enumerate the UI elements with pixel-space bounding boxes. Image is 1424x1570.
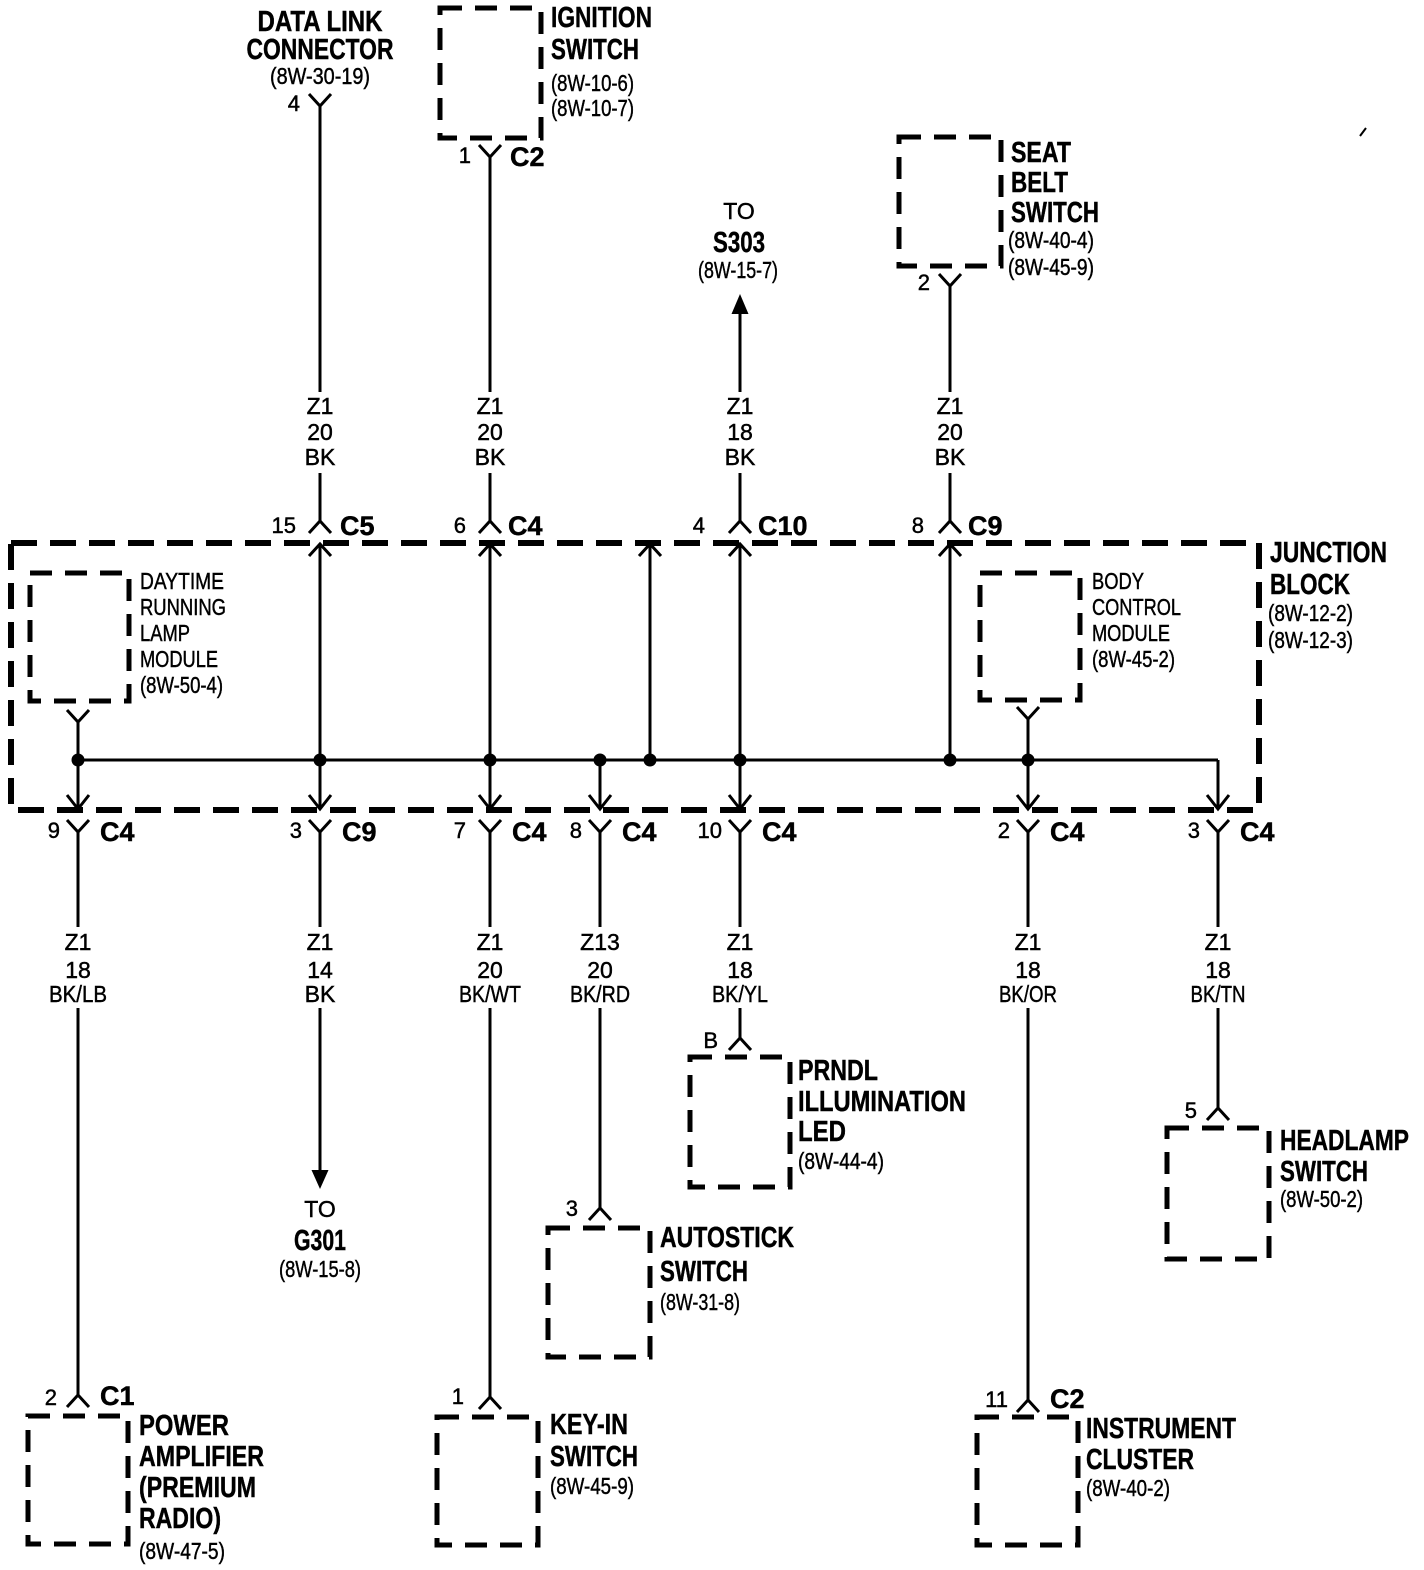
wire stub from bus to top edge bbox=[649, 544, 652, 760]
prndl illumination led label bbox=[798, 1055, 966, 1174]
svg-text:Z1: Z1 bbox=[307, 393, 334, 419]
svg-text:C4: C4 bbox=[1050, 817, 1085, 847]
svg-text:18: 18 bbox=[727, 957, 753, 983]
wire Z1 20 BK from ignition switch (upper) bbox=[489, 157, 492, 392]
svg-text:(8W-15-7): (8W-15-7) bbox=[698, 257, 778, 283]
svg-text:Z1: Z1 bbox=[65, 929, 92, 955]
arrow out of junction block at x=1028 bbox=[1017, 795, 1039, 809]
svg-text:6: 6 bbox=[454, 513, 466, 538]
svg-text:SWITCH: SWITCH bbox=[1280, 1156, 1368, 1188]
svg-text:18: 18 bbox=[1015, 957, 1041, 983]
svg-text:20: 20 bbox=[477, 957, 503, 983]
daytime running lamp module label bbox=[140, 568, 226, 698]
svg-text:CONNECTOR: CONNECTOR bbox=[247, 34, 394, 66]
wire bus to pin 10 C4 bottom bbox=[739, 760, 742, 809]
svg-text:Z1: Z1 bbox=[307, 929, 334, 955]
body control module label bbox=[1092, 568, 1181, 672]
fork below junction block at x=1028 bbox=[1017, 820, 1039, 832]
svg-text:7: 7 bbox=[454, 818, 466, 843]
svg-text:BK: BK bbox=[475, 444, 506, 470]
connector fork pin 2 C1 (power amplifier) bbox=[67, 1395, 89, 1407]
svg-text:5: 5 bbox=[1185, 1098, 1197, 1123]
wire Z1 20 BK from seat belt switch (upper) bbox=[949, 286, 952, 392]
svg-text:AUTOSTICK: AUTOSTICK bbox=[660, 1222, 794, 1254]
svg-text:Z1: Z1 bbox=[937, 393, 964, 419]
svg-text:(8W-50-2): (8W-50-2) bbox=[1280, 1186, 1363, 1212]
svg-text:BODY: BODY bbox=[1092, 568, 1144, 594]
svg-text:ILLUMINATION: ILLUMINATION bbox=[798, 1086, 966, 1118]
svg-text:BK/LB: BK/LB bbox=[49, 981, 107, 1007]
svg-text:(8W-44-4): (8W-44-4) bbox=[798, 1148, 884, 1174]
node S303 label bbox=[698, 198, 778, 283]
headlamp switch box bbox=[1167, 1128, 1269, 1259]
arrow out of junction block at x=78 bbox=[67, 795, 89, 809]
svg-text:2: 2 bbox=[45, 1385, 57, 1410]
key-in switch label bbox=[550, 1409, 638, 1499]
svg-text:3: 3 bbox=[290, 818, 302, 843]
svg-text:C9: C9 bbox=[342, 817, 377, 847]
svg-text:CONTROL: CONTROL bbox=[1092, 594, 1181, 620]
arrowhead to G301 bbox=[312, 1170, 329, 1189]
body control module box bbox=[980, 573, 1080, 700]
connector fork below body control module bbox=[1017, 707, 1039, 719]
svg-text:DAYTIME: DAYTIME bbox=[140, 568, 224, 594]
svg-text:LED: LED bbox=[798, 1116, 846, 1148]
wire label Z1 20 BK bbox=[935, 393, 966, 470]
svg-text:(8W-10-6): (8W-10-6) bbox=[551, 70, 634, 96]
connector fork pin 4 (data link connector) bbox=[309, 94, 331, 106]
svg-text:SEAT: SEAT bbox=[1011, 137, 1071, 169]
svg-text:BK/RD: BK/RD bbox=[570, 981, 630, 1007]
svg-text:C2: C2 bbox=[510, 142, 545, 172]
svg-text:C4: C4 bbox=[622, 817, 657, 847]
fork below junction block at x=320 bbox=[309, 820, 331, 832]
svg-text:BK: BK bbox=[305, 444, 336, 470]
svg-text:BK/WT: BK/WT bbox=[459, 981, 521, 1007]
seat belt switch box bbox=[899, 137, 1001, 266]
wire Z1 20 BK (lower) bbox=[319, 473, 322, 521]
wire bus to pin 7 C4 bottom bbox=[489, 760, 492, 809]
connector fork pin B (prndl led) bbox=[729, 1038, 751, 1050]
junction dot at x=78 bbox=[72, 754, 85, 767]
svg-text:(8W-15-8): (8W-15-8) bbox=[279, 1256, 361, 1282]
ignition switch label bbox=[551, 2, 652, 121]
svg-text:3: 3 bbox=[1188, 818, 1200, 843]
wire C5 to bus bbox=[319, 544, 322, 760]
wire Z1 20 BK from data link connector (upper) bbox=[319, 106, 322, 392]
svg-text:(8W-12-3): (8W-12-3) bbox=[1268, 627, 1353, 653]
fork into junction block C10 bbox=[729, 521, 751, 533]
svg-text:SWITCH: SWITCH bbox=[660, 1256, 748, 1288]
wire Z1 18 BK/TN (lower) bbox=[1217, 1008, 1220, 1108]
svg-text:Z1: Z1 bbox=[727, 929, 754, 955]
prndl illumination led box bbox=[690, 1057, 790, 1187]
wire Z1 18 BK/OR from junction block (upper) bbox=[1027, 832, 1030, 927]
arrow out of junction block at x=1218 bbox=[1207, 795, 1229, 809]
power amplifier label bbox=[139, 1410, 264, 1564]
svg-text:1: 1 bbox=[459, 143, 471, 168]
svg-text:SWITCH: SWITCH bbox=[550, 1441, 638, 1473]
svg-text:BK: BK bbox=[935, 444, 966, 470]
svg-text:20: 20 bbox=[477, 419, 503, 445]
svg-text:(8W-45-9): (8W-45-9) bbox=[1008, 254, 1094, 280]
headlamp switch label bbox=[1280, 1125, 1409, 1212]
svg-text:C4: C4 bbox=[512, 817, 547, 847]
svg-text:Z1: Z1 bbox=[477, 929, 504, 955]
arrow into junction block at C10 bbox=[729, 544, 751, 556]
svg-text:Z1: Z1 bbox=[1015, 929, 1042, 955]
fork below junction block at x=1218 bbox=[1207, 820, 1229, 832]
arrow out of junction block at x=490 bbox=[479, 795, 501, 809]
svg-text:BK/TN: BK/TN bbox=[1191, 981, 1246, 1007]
svg-text:3: 3 bbox=[566, 1196, 578, 1221]
svg-text:8: 8 bbox=[570, 818, 582, 843]
wire label Z1 18 BK/OR bbox=[999, 929, 1057, 1007]
wire C4 top to bus bbox=[489, 544, 492, 760]
svg-text:C4: C4 bbox=[508, 511, 543, 541]
svg-text:(8W-45-9): (8W-45-9) bbox=[550, 1473, 634, 1499]
svg-text:JUNCTION: JUNCTION bbox=[1270, 537, 1387, 569]
wire Z1 18 BK (lower) bbox=[739, 473, 742, 521]
wire Z13 20 BK/RD (lower) bbox=[599, 1008, 602, 1208]
wire label Z1 20 BK/WT bbox=[459, 929, 521, 1007]
fork below junction block at x=600 bbox=[589, 820, 611, 832]
svg-text:TO: TO bbox=[304, 1196, 336, 1222]
svg-text:(8W-50-4): (8W-50-4) bbox=[140, 672, 223, 698]
junction dot at x=650 bbox=[644, 754, 657, 767]
svg-text:11: 11 bbox=[985, 1387, 1008, 1412]
key-in switch box bbox=[437, 1417, 538, 1545]
autostick switch label bbox=[660, 1222, 794, 1315]
svg-text:20: 20 bbox=[587, 957, 613, 983]
wire bus to pin 9 C4 bottom bbox=[77, 760, 80, 809]
svg-text:TO: TO bbox=[723, 198, 755, 224]
arrowhead to S303 bbox=[732, 294, 749, 314]
wire Z1 14 BK from junction block (upper) bbox=[319, 832, 322, 927]
svg-text:(8W-10-7): (8W-10-7) bbox=[551, 95, 634, 121]
svg-text:POWER: POWER bbox=[139, 1410, 229, 1442]
stray mark bbox=[1360, 128, 1366, 136]
svg-text:BK: BK bbox=[725, 444, 756, 470]
connector fork pin 1 (key-in switch) bbox=[479, 1397, 501, 1409]
svg-text:18: 18 bbox=[65, 957, 91, 983]
svg-text:MODULE: MODULE bbox=[140, 646, 218, 672]
svg-text:AMPLIFIER: AMPLIFIER bbox=[139, 1441, 264, 1473]
svg-text:MODULE: MODULE bbox=[1092, 620, 1170, 646]
wire label Z1 14 BK bbox=[305, 929, 336, 1007]
wire Z1 20 BK (lower) bbox=[489, 473, 492, 521]
wire C10 to bus bbox=[739, 544, 742, 760]
svg-text:RUNNING: RUNNING bbox=[140, 594, 226, 620]
svg-text:(8W-45-2): (8W-45-2) bbox=[1092, 646, 1175, 672]
svg-text:B: B bbox=[703, 1028, 718, 1053]
svg-text:SWITCH: SWITCH bbox=[1011, 197, 1099, 229]
svg-text:9: 9 bbox=[48, 818, 60, 843]
wire label Z1 20 BK bbox=[475, 393, 506, 470]
svg-text:C9: C9 bbox=[968, 511, 1003, 541]
data link connector label bbox=[247, 6, 394, 89]
wire label Z1 18 BK/LB bbox=[49, 929, 107, 1007]
svg-text:(8W-40-2): (8W-40-2) bbox=[1086, 1475, 1170, 1501]
power amplifier box bbox=[28, 1416, 128, 1544]
arrow into junction block at C4 bbox=[479, 544, 501, 556]
connector fork pin 11 C2 (instrument cluster) bbox=[1017, 1400, 1039, 1412]
wire label Z13 20 BK/RD bbox=[570, 929, 630, 1007]
svg-text:C1: C1 bbox=[100, 1381, 135, 1411]
svg-text:18: 18 bbox=[1205, 957, 1231, 983]
wire bus corner down to pin 3 C4 bottom bbox=[1217, 760, 1220, 809]
svg-text:14: 14 bbox=[307, 957, 333, 983]
svg-text:S303: S303 bbox=[713, 227, 765, 259]
daytime running lamp module box bbox=[30, 573, 129, 701]
svg-text:8: 8 bbox=[912, 513, 924, 538]
svg-text:18: 18 bbox=[727, 419, 753, 445]
seat belt switch label bbox=[1008, 137, 1099, 280]
svg-text:BK/OR: BK/OR bbox=[999, 981, 1057, 1007]
svg-text:G301: G301 bbox=[294, 1225, 346, 1257]
junction block outline bbox=[11, 543, 1259, 810]
wire C9 top to bus bbox=[949, 544, 952, 760]
arrow at top of stub bbox=[639, 544, 661, 556]
wire from body control module to bus bbox=[1027, 719, 1030, 760]
svg-text:20: 20 bbox=[937, 419, 963, 445]
fork into junction block C5 bbox=[309, 521, 331, 533]
wire Z1 20 BK (lower) bbox=[949, 473, 952, 521]
autostick switch box bbox=[548, 1228, 650, 1357]
node G301 label bbox=[279, 1196, 361, 1282]
wire Z1 14 BK (lower) bbox=[319, 1008, 322, 1172]
arrow into junction block at C5 bbox=[309, 544, 331, 556]
svg-text:(8W-47-5): (8W-47-5) bbox=[139, 1538, 225, 1564]
svg-text:Z1: Z1 bbox=[477, 393, 504, 419]
svg-text:C10: C10 bbox=[758, 511, 808, 541]
wire bus to pin 8 C4 bottom bbox=[599, 760, 602, 809]
svg-text:2: 2 bbox=[918, 270, 930, 295]
wire bus to pin 3 C9 bottom bbox=[319, 760, 322, 809]
arrow out of junction block at x=740 bbox=[729, 795, 751, 809]
junction dot at x=320 bbox=[314, 754, 327, 767]
svg-text:RADIO): RADIO) bbox=[139, 1503, 221, 1535]
wire label Z1 20 BK bbox=[305, 393, 336, 470]
arrow out of junction block at x=600 bbox=[589, 795, 611, 809]
svg-text:BLOCK: BLOCK bbox=[1270, 569, 1350, 601]
arrow out of junction block at x=320 bbox=[309, 795, 331, 809]
wire Z13 20 BK/RD from junction block (upper) bbox=[599, 832, 602, 927]
junction dot at x=490 bbox=[484, 754, 497, 767]
connector fork pin 2 (seat belt switch) bbox=[939, 274, 961, 286]
svg-text:Z1: Z1 bbox=[1205, 929, 1232, 955]
wire Z1 20 BK/WT from junction block (upper) bbox=[489, 832, 492, 927]
wire label Z1 18 BK/YL bbox=[712, 929, 768, 1007]
svg-text:(8W-40-4): (8W-40-4) bbox=[1008, 227, 1094, 253]
svg-text:(8W-30-19): (8W-30-19) bbox=[270, 63, 370, 89]
svg-text:4: 4 bbox=[288, 91, 300, 116]
wire Z1 18 BK/OR (lower) bbox=[1027, 1008, 1030, 1400]
wire Z1 18 BK/LB from junction block (upper) bbox=[77, 832, 80, 927]
svg-text:(PREMIUM: (PREMIUM bbox=[139, 1472, 256, 1504]
junction dot at x=600 bbox=[594, 754, 607, 767]
ground bus wire bbox=[78, 759, 1218, 762]
junction dot at x=1028 bbox=[1022, 754, 1035, 767]
wire Z1 18 BK/LB (lower) bbox=[77, 1008, 80, 1395]
svg-text:BK: BK bbox=[305, 981, 336, 1007]
wire Z1 18 BK to S303 (upper) bbox=[739, 312, 742, 392]
fork below junction block at x=740 bbox=[729, 820, 751, 832]
svg-text:HEADLAMP: HEADLAMP bbox=[1280, 1125, 1409, 1157]
svg-text:KEY-IN: KEY-IN bbox=[550, 1409, 628, 1441]
arrow into junction block at C9 bbox=[939, 544, 961, 556]
svg-text:INSTRUMENT: INSTRUMENT bbox=[1086, 1413, 1236, 1445]
svg-text:4: 4 bbox=[693, 513, 705, 538]
svg-text:C4: C4 bbox=[100, 817, 135, 847]
svg-text:2: 2 bbox=[998, 818, 1010, 843]
svg-text:(8W-31-8): (8W-31-8) bbox=[660, 1289, 740, 1315]
instrument cluster label bbox=[1086, 1413, 1236, 1501]
svg-text:C5: C5 bbox=[340, 511, 375, 541]
connector fork below daytime running lamp module bbox=[67, 710, 89, 722]
connector fork pin 5 (headlamp switch) bbox=[1207, 1108, 1229, 1120]
svg-text:C4: C4 bbox=[762, 817, 797, 847]
fork into junction block C4 bbox=[479, 521, 501, 533]
svg-text:20: 20 bbox=[307, 419, 333, 445]
svg-text:10: 10 bbox=[698, 818, 722, 843]
connector fork pin 1 C2 (ignition switch) bbox=[479, 145, 501, 157]
svg-text:C4: C4 bbox=[1240, 817, 1275, 847]
svg-text:BK/YL: BK/YL bbox=[712, 981, 768, 1007]
svg-text:IGNITION: IGNITION bbox=[551, 2, 652, 34]
svg-text:15: 15 bbox=[272, 513, 296, 538]
svg-text:Z13: Z13 bbox=[580, 929, 620, 955]
wire Z1 18 BK/YL (lower) bbox=[739, 1008, 742, 1038]
svg-text:(8W-12-2): (8W-12-2) bbox=[1268, 600, 1353, 626]
svg-text:C2: C2 bbox=[1050, 1384, 1085, 1414]
junction block label bbox=[1268, 537, 1387, 653]
fork into junction block C9 bbox=[939, 521, 961, 533]
fork below junction block at x=78 bbox=[67, 820, 89, 832]
ignition switch box bbox=[440, 8, 541, 138]
fork below junction block at x=490 bbox=[479, 820, 501, 832]
svg-text:Z1: Z1 bbox=[727, 393, 754, 419]
wire bus to pin 2 C4 bottom bbox=[1027, 760, 1030, 809]
wire label Z1 18 BK bbox=[725, 393, 756, 470]
wire Z1 20 BK/WT (lower) bbox=[489, 1008, 492, 1397]
connector fork pin 3 (autostick switch) bbox=[589, 1208, 611, 1220]
svg-text:1: 1 bbox=[452, 1384, 464, 1409]
instrument cluster box bbox=[977, 1417, 1078, 1545]
wire label Z1 18 BK/TN bbox=[1191, 929, 1246, 1007]
svg-text:PRNDL: PRNDL bbox=[798, 1055, 878, 1087]
svg-text:SWITCH: SWITCH bbox=[551, 34, 639, 66]
junction dot at x=950 bbox=[944, 754, 957, 767]
junction dot at x=740 bbox=[734, 754, 747, 767]
wire Z1 18 BK/TN from junction block (upper) bbox=[1217, 832, 1220, 927]
wire from daytime running lamp module to bus bbox=[77, 722, 80, 760]
wire Z1 18 BK/YL from junction block (upper) bbox=[739, 832, 742, 927]
svg-text:CLUSTER: CLUSTER bbox=[1086, 1444, 1194, 1476]
svg-text:LAMP: LAMP bbox=[140, 620, 190, 646]
svg-text:BELT: BELT bbox=[1011, 167, 1068, 199]
